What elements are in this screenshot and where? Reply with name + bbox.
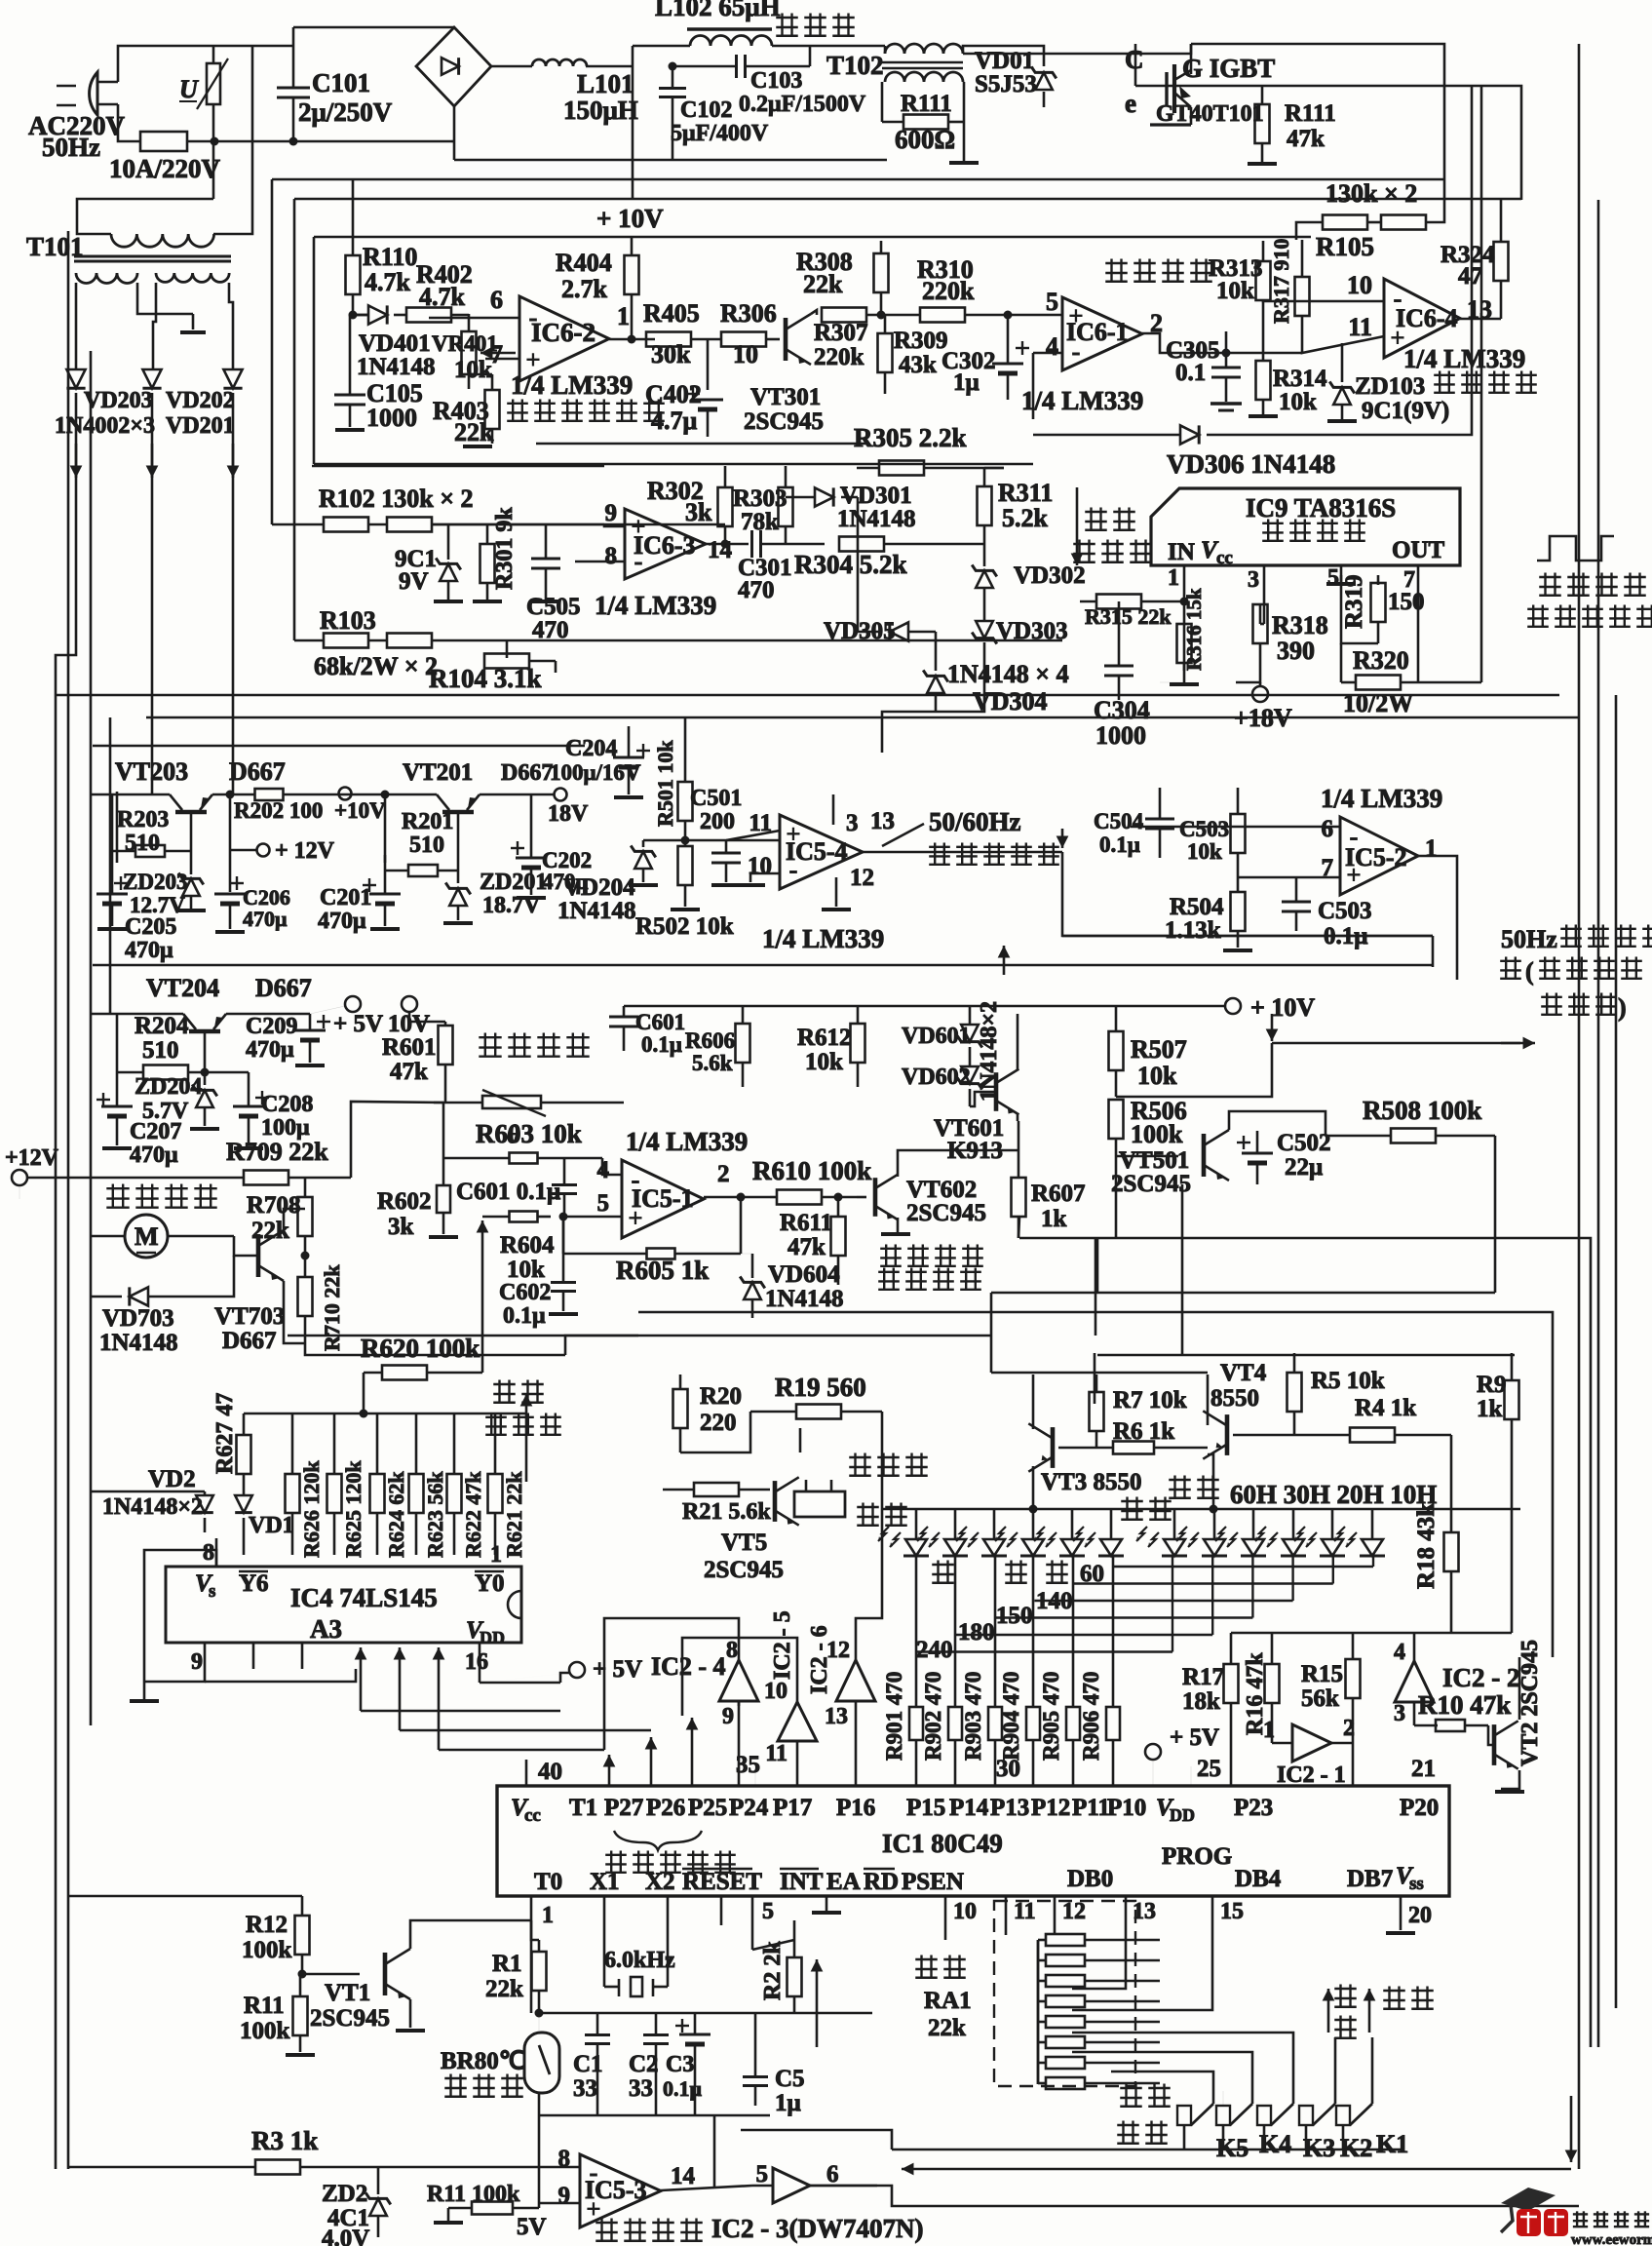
wire T101 prim right xyxy=(213,46,252,234)
wire T101 prim left2 xyxy=(77,199,213,234)
wire vd703 right xyxy=(149,1256,234,1297)
wire ic4 left stub xyxy=(144,1550,166,1682)
wire pin7 out xyxy=(1417,599,1420,682)
svg-text:IC1 80C49: IC1 80C49 xyxy=(882,1829,1003,1858)
resistor R10 xyxy=(1418,1690,1511,1731)
svg-text:VD01: VD01 xyxy=(975,48,1034,74)
junction R310-C302 xyxy=(1004,311,1013,320)
diode VD305 xyxy=(824,544,908,644)
wire pin16 bend xyxy=(560,1673,569,1683)
svg-text:50Hz: 50Hz xyxy=(1501,925,1557,953)
wire switch stubs5 xyxy=(1342,2125,1345,2149)
svg-text:6: 6 xyxy=(826,2161,839,2188)
wire IC6-2 out xyxy=(609,338,655,341)
wire misc vert 1470 xyxy=(1432,936,1435,967)
svg-text:C102: C102 xyxy=(680,97,732,123)
svg-text:12: 12 xyxy=(826,1638,850,1663)
wire in10 xyxy=(1325,300,1384,303)
resistor R5 xyxy=(1287,1353,1385,1435)
svg-text:IC2 - 3(DW7407N): IC2 - 3(DW7407N) xyxy=(711,2214,923,2243)
pin9 IC4 xyxy=(191,1643,205,1675)
ground R111 xyxy=(949,161,979,165)
svg-text:10: 10 xyxy=(764,1679,788,1704)
label C1 33 xyxy=(573,2051,603,2102)
svg-text:Y0: Y0 xyxy=(475,1570,505,1597)
diode VD703 xyxy=(99,1287,178,1356)
svg-text:390: 390 xyxy=(1277,637,1315,665)
label Y0 pin xyxy=(466,1570,505,1647)
svg-text:5V: 5V xyxy=(517,2214,547,2240)
transistor VT4 8550 xyxy=(1203,1360,1266,1459)
terminal +5V ic4 xyxy=(480,1656,642,1683)
wire vt703 coll xyxy=(284,1209,305,1230)
svg-text:200: 200 xyxy=(700,809,735,834)
resistor R404 xyxy=(556,249,639,339)
svg-text:K5: K5 xyxy=(1216,2134,1249,2162)
label R305 2.2k xyxy=(854,423,967,452)
label mid xyxy=(1005,1561,1027,1583)
resistor R307 xyxy=(814,308,885,371)
svg-text:R501 10k: R501 10k xyxy=(653,740,677,827)
ground in10 xyxy=(736,883,765,887)
svg-text:R901 470: R901 470 xyxy=(882,1672,906,1761)
svg-text:10k: 10k xyxy=(1187,839,1222,864)
arrow P26 in xyxy=(645,1737,658,1786)
junction r620 xyxy=(360,1410,368,1418)
wire route a xyxy=(361,1710,560,1713)
wire IC6-2 in7 xyxy=(485,358,519,361)
transistor VT501 xyxy=(1111,1130,1229,1197)
label 1N4002x3 VD201 xyxy=(55,413,235,439)
IC4 notch xyxy=(508,1591,521,1618)
svg-text:VT301: VT301 xyxy=(750,384,821,410)
svg-text:R3 1k: R3 1k xyxy=(251,2126,318,2155)
pin1 xyxy=(1168,565,1184,601)
ground C209 xyxy=(295,1064,325,1067)
IC9 TA8316S box xyxy=(1151,488,1460,565)
capacitor C601b xyxy=(456,1158,577,1217)
wire VT203 collector rail xyxy=(91,794,170,796)
label 150 xyxy=(996,1603,1033,1629)
junction vt1 base xyxy=(298,1970,307,1979)
junction led rail xyxy=(1210,1505,1218,1514)
capacitor C103 xyxy=(672,55,866,117)
wire R305 down xyxy=(984,467,1004,470)
svg-text:2SC945: 2SC945 xyxy=(310,2005,390,2032)
resistor R504 xyxy=(1165,877,1246,948)
wire VT201 emitter out xyxy=(480,794,554,796)
svg-text:8: 8 xyxy=(726,1638,738,1663)
svg-text:C503: C503 xyxy=(1179,817,1229,841)
svg-text:1N4148: 1N4148 xyxy=(557,898,636,924)
svg-text:R314: R314 xyxy=(1273,366,1327,392)
wire out right up xyxy=(1480,86,1483,682)
resistor bank R625 xyxy=(327,1413,366,1558)
wire 130k feedback line xyxy=(272,178,1444,181)
svg-text:40: 40 xyxy=(538,1759,562,1785)
diode VD306 xyxy=(1167,425,1335,479)
ground C501 xyxy=(711,883,741,887)
wire VD305 right xyxy=(909,631,936,634)
diode VD604 xyxy=(740,1254,843,1318)
wire switch stubs xyxy=(1183,2125,1186,2149)
ground center tap xyxy=(180,330,206,334)
resistor R306 xyxy=(720,299,780,368)
wire db mesh 2 xyxy=(1072,1935,1212,2010)
svg-text:33: 33 xyxy=(573,2075,597,2102)
svg-text:IC2 - 1: IC2 - 1 xyxy=(1277,1762,1346,1788)
wire vt703 base xyxy=(234,1236,258,1256)
svg-text:T102: T102 xyxy=(826,51,884,80)
svg-text:8: 8 xyxy=(203,1540,214,1566)
resistor R201 xyxy=(385,809,458,876)
wire ic53 in9 xyxy=(539,2202,580,2205)
svg-text:IC6-2: IC6-2 xyxy=(531,318,595,347)
svg-text:): ) xyxy=(1618,993,1627,1022)
svg-text:R303: R303 xyxy=(733,485,788,512)
wire db mesh 1 xyxy=(1072,1935,1126,1989)
ground C602 xyxy=(549,1312,578,1316)
svg-text:R612: R612 xyxy=(797,1025,852,1051)
svg-text:DB4: DB4 xyxy=(1235,1866,1282,1892)
wire r3 right xyxy=(300,2166,580,2169)
wire vt204 emitter xyxy=(226,1013,310,1016)
regulator box xyxy=(93,745,585,748)
wire R318 down xyxy=(1236,663,1260,682)
svg-text:L102 65μH: L102 65μH xyxy=(655,0,781,21)
wire secA left drop xyxy=(75,283,78,369)
resistor R403 xyxy=(433,374,500,446)
svg-text:10: 10 xyxy=(1347,271,1372,299)
svg-text:+ 5V: + 5V xyxy=(1170,1724,1219,1751)
wire pin9 route xyxy=(144,1669,205,1682)
label INT xyxy=(780,1869,824,1895)
junction vt703 coll xyxy=(301,1252,310,1260)
label P27-P24 xyxy=(604,1795,769,1821)
wire vd204-r501 xyxy=(643,839,685,842)
svg-text:R626 120k: R626 120k xyxy=(299,1460,324,1558)
svg-text:VD302: VD302 xyxy=(1014,562,1086,589)
label 60 xyxy=(1080,1561,1104,1587)
wire y960 bus xyxy=(1062,935,1433,938)
wire int wire xyxy=(752,1940,794,1950)
bridge rectifier xyxy=(416,27,491,106)
label 5V xyxy=(517,2214,547,2240)
buffer IC2-1 xyxy=(1263,1716,1355,1788)
wire ic5-1 out xyxy=(704,1196,770,1199)
svg-text:VT201: VT201 xyxy=(403,759,473,786)
wire vt4 collector xyxy=(1207,1375,1210,1425)
resistor R304 xyxy=(794,537,984,580)
svg-text:25: 25 xyxy=(1197,1756,1221,1782)
buzzer xyxy=(794,1453,928,1518)
wire mid verticals xyxy=(881,751,884,753)
svg-text:S5J53: S5J53 xyxy=(975,71,1037,97)
transistor VT5 xyxy=(704,1477,799,1583)
resistor R603 xyxy=(443,1119,602,1164)
svg-text:R105: R105 xyxy=(1316,232,1374,261)
junction out-R404 xyxy=(628,335,636,344)
capacitor C5 xyxy=(743,2013,805,2116)
capacitor C305 xyxy=(1166,331,1241,402)
svg-text:R508 100k: R508 100k xyxy=(1363,1096,1481,1125)
transistor VT601 K913 xyxy=(934,1069,1018,1164)
svg-text:470μ: 470μ xyxy=(130,1142,178,1168)
svg-text:R11 100k: R11 100k xyxy=(427,2182,520,2207)
resistor R308 xyxy=(796,241,889,315)
pin3 xyxy=(1248,565,1264,624)
svg-text:P14: P14 xyxy=(949,1795,989,1821)
resistor bank R622 xyxy=(447,1413,486,1558)
ground C505 xyxy=(531,600,560,603)
wire vs up xyxy=(166,1550,216,1567)
ground R301 xyxy=(473,600,502,603)
wire motor right xyxy=(168,1235,234,1238)
svg-text:PSEN: PSEN xyxy=(902,1869,964,1895)
LED staircase xyxy=(917,1556,1374,1652)
svg-text:T0: T0 xyxy=(534,1869,562,1895)
svg-text:R309: R309 xyxy=(894,328,948,354)
wire r319 wires xyxy=(1377,575,1380,583)
svg-text:R625 120k: R625 120k xyxy=(341,1460,365,1558)
terminal +18V xyxy=(1234,682,1292,732)
LED row1 tops xyxy=(916,1509,1111,1539)
label 1/4 LM339 (IC6-4) xyxy=(1403,344,1525,373)
svg-text:R603 10k: R603 10k xyxy=(476,1119,582,1148)
pin16 IC4 xyxy=(465,1643,488,1683)
resistor R12 xyxy=(242,1896,310,1974)
svg-text:R405: R405 xyxy=(643,299,700,328)
svg-text:K1: K1 xyxy=(1376,2130,1408,2158)
resistor R610 xyxy=(752,1156,871,1205)
svg-text:ZD203: ZD203 xyxy=(123,870,187,894)
capacitor C302 xyxy=(941,315,1029,400)
wire IC6-1 in4 xyxy=(1033,352,1062,355)
diode VD602 xyxy=(902,1047,982,1106)
svg-text:VT5: VT5 xyxy=(721,1530,767,1556)
wire VD201 out xyxy=(232,393,235,794)
pin8 IC4 xyxy=(203,1538,216,1567)
wire led rail1 xyxy=(882,1508,1213,1511)
svg-text:510: 510 xyxy=(409,833,444,858)
wire 130k left xyxy=(1296,222,1323,240)
svg-text:6: 6 xyxy=(490,286,503,314)
label 50Hz out xyxy=(1500,924,1652,1022)
ground C204 xyxy=(614,795,643,799)
arrow power xyxy=(1364,1989,1376,2033)
svg-text:5μF/400V: 5μF/400V xyxy=(671,121,769,146)
svg-text:470μ: 470μ xyxy=(243,907,288,931)
svg-text:X1: X1 xyxy=(590,1869,620,1895)
svg-text:R102 130k × 2: R102 130k × 2 xyxy=(319,484,474,513)
arrow P27 in xyxy=(603,1755,616,1786)
resistor R104 xyxy=(429,654,556,694)
label fixed-temp heat xyxy=(1117,2084,1171,2144)
diode VD302 xyxy=(972,544,1085,589)
svg-text:R204: R204 xyxy=(134,1013,189,1039)
wire r607 bottom xyxy=(1018,1217,1019,1238)
wire buzzer wires xyxy=(680,1412,750,1452)
LED row1 xyxy=(878,1527,1124,1556)
wire ic5-2 in6 xyxy=(1131,826,1340,829)
terminal +5V reg xyxy=(310,996,383,1037)
wire +10V drop xyxy=(631,237,634,255)
junction ic5-1 out xyxy=(737,1193,746,1202)
junction IC6-3 out xyxy=(721,540,730,549)
svg-text:R611: R611 xyxy=(780,1210,832,1236)
svg-text:5.2k: 5.2k xyxy=(1002,504,1049,532)
wire VD401 junction xyxy=(353,314,367,317)
resistor R17 xyxy=(1182,1633,1239,1786)
transistor VT1 xyxy=(310,1949,410,2032)
label 60H30H20H10H xyxy=(1230,1480,1437,1509)
resistor bank R623 xyxy=(409,1413,448,1558)
diode VD2 xyxy=(102,1466,213,1532)
resistor R7 xyxy=(1090,1375,1187,1448)
label VDD xyxy=(1156,1795,1195,1825)
svg-text:22k: 22k xyxy=(485,1976,523,2002)
ground VT1 xyxy=(396,2029,425,2033)
svg-text:2SC945: 2SC945 xyxy=(704,1557,784,1583)
wire ic2-4 in xyxy=(738,1701,741,1706)
wire 5v to ic53 xyxy=(538,2115,541,2208)
svg-text:3k: 3k xyxy=(685,498,712,526)
label square pulse out xyxy=(1527,573,1652,627)
wire caps bottom rail xyxy=(539,2114,770,2117)
svg-text:DD: DD xyxy=(1170,1805,1195,1825)
svg-text:10k: 10k xyxy=(1279,389,1317,415)
resistor R19 xyxy=(750,1373,882,1419)
op-amp IC5-4 xyxy=(748,808,895,891)
label EA xyxy=(826,1869,861,1895)
label VD203 VD202 xyxy=(84,388,235,413)
ground C208 xyxy=(234,1146,263,1150)
svg-text:0.1μ: 0.1μ xyxy=(503,1303,546,1329)
label 1/4 LM339 (IC6-1) xyxy=(1021,386,1143,415)
resistor R3 xyxy=(68,2126,546,2175)
svg-text:2SC945: 2SC945 xyxy=(906,1200,986,1226)
svg-text:R301 9k: R301 9k xyxy=(492,507,518,590)
svg-text:1μ: 1μ xyxy=(775,2090,801,2116)
svg-text:7: 7 xyxy=(490,340,503,368)
wire y1408 feed xyxy=(991,1372,1208,1375)
wire y1370 bus xyxy=(288,1335,991,1337)
label R402 xyxy=(416,260,473,311)
resistor 130k x2 a xyxy=(1323,215,1367,230)
svg-text:VD301: VD301 xyxy=(840,483,912,509)
svg-text:R2 2k: R2 2k xyxy=(760,1941,786,2000)
svg-text:IC4 74LS145: IC4 74LS145 xyxy=(290,1583,438,1612)
svg-text:R17: R17 xyxy=(1182,1664,1224,1690)
pin 2b xyxy=(1080,1917,1081,1919)
wire left low bus xyxy=(67,1896,70,2169)
label reset circuit xyxy=(595,2219,703,2241)
capacitor C505 xyxy=(526,524,581,643)
arrow into node xyxy=(1266,1014,1279,1041)
capacitor C202 xyxy=(511,794,592,895)
ground Vss xyxy=(1386,1931,1415,1935)
label 1/4 LM339 (IC5-2) xyxy=(1321,784,1442,813)
pin7 xyxy=(1403,565,1418,599)
ground VD204 xyxy=(629,883,658,887)
junction c101 xyxy=(289,137,298,146)
resistor R611 xyxy=(780,1197,846,1277)
svg-text:R504: R504 xyxy=(1170,894,1224,920)
label 1/4 LM339 (IC5-1) xyxy=(626,1127,748,1156)
resistor R506 xyxy=(1109,1097,1187,1160)
svg-text:100k: 100k xyxy=(1131,1120,1183,1148)
capacitor C502 xyxy=(1237,1130,1331,1184)
wire ic2-5 top xyxy=(682,1638,797,1716)
wire c208 tap xyxy=(226,1071,249,1074)
wire L101 node vert xyxy=(632,46,634,200)
wire VT301 collector xyxy=(811,310,817,315)
wire box drive top xyxy=(1097,1354,1515,1357)
wire 10v rail xyxy=(409,1021,445,1024)
transistor VT602 xyxy=(875,1175,986,1226)
arrow VD203 xyxy=(70,444,83,478)
resistor R21 xyxy=(663,1483,771,1525)
wire led rail2 xyxy=(1213,1508,1520,1511)
wire switch bus left xyxy=(741,2130,892,2149)
wire VR401-R403 xyxy=(469,373,492,376)
svg-text:4: 4 xyxy=(1046,332,1058,361)
svg-text:240: 240 xyxy=(916,1637,953,1663)
svg-text:P17: P17 xyxy=(773,1795,812,1821)
ground C305 xyxy=(1210,404,1242,410)
wire caps gnd drops xyxy=(596,2067,599,2115)
svg-text:1N4148: 1N4148 xyxy=(99,1330,178,1356)
svg-text:VT1: VT1 xyxy=(325,1980,370,2006)
svg-text:IC6-1: IC6-1 xyxy=(1066,318,1129,346)
label P23 P20 xyxy=(1234,1795,1439,1821)
label P15-P10 xyxy=(906,1795,1146,1821)
wire r603 to pin4 xyxy=(602,1158,622,1175)
wire ic5-4 in11 xyxy=(685,831,780,840)
buffer IC2-4 xyxy=(651,1638,758,1786)
wire VD306 right xyxy=(1207,86,1472,435)
junction r611 xyxy=(834,1193,843,1202)
svg-text:(: ( xyxy=(1525,957,1534,986)
label R105 xyxy=(1316,232,1374,261)
resistor R111 600 xyxy=(882,82,964,161)
label RD xyxy=(864,1869,899,1895)
IC4 74LS145 box xyxy=(166,1567,521,1644)
svg-text:R624 62k: R624 62k xyxy=(384,1471,408,1558)
label iron pan xyxy=(776,14,855,36)
svg-text:R12: R12 xyxy=(246,1912,288,1938)
resistor R906 xyxy=(1079,1556,1120,1786)
capacitor C201 xyxy=(318,791,401,935)
zener ZD201 xyxy=(445,870,547,920)
svg-text:R710 22k: R710 22k xyxy=(320,1264,344,1351)
resistor R15 xyxy=(1301,1633,1361,1786)
svg-text:D667: D667 xyxy=(222,1328,277,1354)
svg-text:2: 2 xyxy=(717,1161,730,1187)
varistor U xyxy=(179,46,228,141)
motor M xyxy=(125,1215,168,1258)
wire T101 prim left xyxy=(212,141,215,199)
wire switch bus xyxy=(892,2149,1403,2151)
svg-text:U: U xyxy=(179,75,199,103)
svg-text:RD: RD xyxy=(864,1869,899,1895)
wire pin1 down xyxy=(1183,601,1186,671)
svg-text:470μ: 470μ xyxy=(318,909,366,934)
svg-text:R7 10k: R7 10k xyxy=(1113,1387,1187,1413)
wire caps gnd drops3 xyxy=(694,2067,697,2115)
label IC1 80C49 xyxy=(882,1829,1003,1858)
svg-text:IC2 - 2: IC2 - 2 xyxy=(1442,1663,1520,1692)
